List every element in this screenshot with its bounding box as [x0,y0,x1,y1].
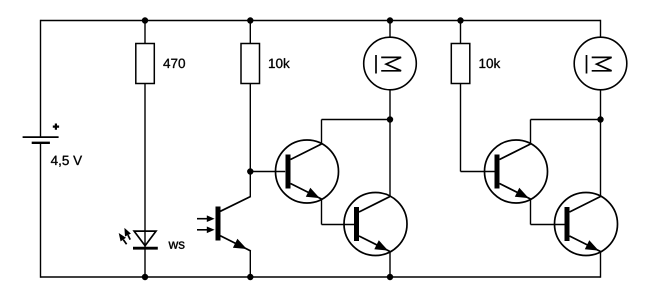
label 470 [163,59,185,69]
resistor R1 470 [136,44,155,84]
wire bottom rail [41,276,601,278]
LED D1 ws [119,228,158,248]
wire R1 to LED to bottom rail [144,84,146,278]
node motor1 collectors junction [387,116,393,122]
node top of R1 [142,17,148,23]
wire Q3 emitter to Q4 base [531,224,566,226]
light-in arrow 2 [197,229,208,231]
node top of R2 [247,17,253,23]
wire motor2 top stub [600,20,602,37]
wire Q3 emitter down [530,199,532,225]
label 10k R2 [269,58,290,68]
wire R3 bottom down [460,84,462,172]
battery B1 4,5V [23,124,82,167]
light-in arrow 1 [197,218,208,220]
wire motor1 top stub [389,21,391,38]
resistor R3 10k [451,44,470,84]
wire left rail upper [40,20,42,137]
label 4,5 V [51,156,82,167]
wire node A to Q1 base [250,171,285,173]
wire Q1 collector horizontal [322,119,391,121]
wire Q3 collector horizontal [531,119,601,121]
wire R3 top stub [460,21,462,44]
transistor Q2 [344,193,407,256]
transistor Q1 [276,140,339,203]
LED light arrow 1 [124,228,130,240]
node LED bottom [142,274,148,280]
wire R1 top stub [144,21,146,44]
battery plus sign [53,124,59,130]
node top of R3 [457,17,463,23]
wire motor1 bottom to Q2 collector [389,90,391,197]
wire Q3 collector up [530,120,532,145]
wire R2 bottom to T1 collector [249,84,251,197]
node motor1 top [387,17,393,23]
wire left rail lower [40,143,42,278]
wire Q2 emitter to bottom rail [389,252,391,278]
wire R2 top stub [249,21,251,44]
label 10k R3 [480,58,501,68]
wire Q1 collector up [321,120,323,145]
node T1 emitter bottom [247,274,253,280]
label ws [168,241,184,248]
wire T1 emitter to bottom rail [249,251,251,278]
resistor R2 10k [241,44,260,84]
LED light arrow 2 [119,233,127,244]
wire Q1 emitter down [321,199,323,225]
wire top rail [41,20,601,22]
node A base junction [247,168,253,174]
node motor2 collectors junction [597,116,603,122]
transistor Q3 [485,140,548,203]
node Q2 emitter bottom [387,274,393,280]
wire Q1 emitter to Q2 base [322,224,355,226]
wire motor2 bottom to Q4 collector [600,90,602,197]
wire R3 to Q3 base [461,171,495,173]
phototransistor T1 [197,196,251,251]
motor M2 [574,37,627,90]
transistor Q4 [555,193,618,256]
wire Q4 emitter to bottom rail corner [600,252,602,278]
motor M1 [364,37,417,90]
